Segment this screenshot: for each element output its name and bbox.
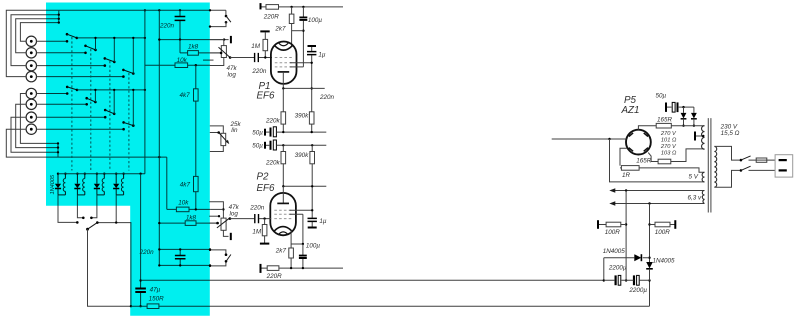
svg-text:15,5 Ω: 15,5 Ω	[721, 130, 740, 137]
svg-text:1R: 1R	[622, 172, 631, 179]
dashed linkage column 2	[90, 49, 92, 171]
wire: P2 g2 to 1u node	[290, 209, 313, 211]
capacitor 100u (P2 screen)	[302, 244, 304, 268]
transformer T1 secondary HV winding	[702, 126, 705, 150]
svg-text:log: log	[228, 72, 237, 79]
wire: jack J7 ground loop	[11, 117, 58, 152]
wire: heater/relay line y=280.5	[141, 279, 604, 281]
wire: P1 g3 to 100u	[290, 66, 303, 68]
resistor 165R (upper)	[638, 126, 704, 130]
resistor 390k (P2)	[310, 152, 315, 164]
svg-text:220k: 220k	[265, 117, 281, 124]
svg-text:100µ: 100µ	[308, 17, 323, 24]
resistor 2k7 (P2 anode)	[290, 231, 292, 269]
rectifier tube P5 AZ1	[626, 130, 651, 155]
wire: B+ vertical to 5V winding	[610, 139, 705, 182]
diode 1N4005 (horizontal)	[604, 258, 650, 281]
wire: ground vertical x=159.3	[158, 10, 160, 265]
svg-text:EF6: EF6	[257, 91, 276, 102]
capacitor 47u (relay supply)	[135, 289, 146, 293]
transformer T1 secondary 5V winding	[702, 172, 704, 182]
transformer T1 primary winding	[714, 146, 716, 187]
ground terminal bar (100R left)	[597, 220, 599, 229]
capacitor 220n (P1 input coupling)	[230, 57, 272, 59]
capacitor 2200u (first)	[614, 275, 616, 285]
wire: jack J2 ground loop	[16, 19, 59, 53]
wire: ground bus vertical group 1	[58, 10, 60, 22]
resistor 1k8 (P2)	[159, 222, 219, 224]
ground terminal bar (100R right)	[674, 220, 676, 229]
switch S1b	[84, 38, 97, 54]
switch S2a	[66, 86, 78, 95]
mains switch pole 1	[740, 159, 743, 162]
wire: P2 cathode line y=186.3	[283, 185, 326, 187]
wire: ground line y=39.6 to bar	[159, 39, 228, 41]
wire: jack signal rows group 2	[37, 94, 124, 130]
capacitor 220n (P2 input coupling)	[230, 218, 271, 220]
capacitor 1u (P1)	[311, 47, 313, 112]
wire: relay contact drop 4	[97, 195, 131, 306]
wire: primary bottom lead	[714, 170, 739, 187]
ground terminal bar (pot P2 bottom)	[230, 233, 232, 240]
diode 1N4005 (vertical on V2)	[646, 262, 653, 269]
resistor 220k (P2)	[281, 152, 286, 164]
capacitor 220n (input filter P1)	[179, 10, 181, 39]
svg-text:5 V: 5 V	[689, 174, 699, 181]
svg-text:2k7: 2k7	[275, 248, 287, 255]
ground terminal bar (50u PSU)	[665, 103, 667, 112]
svg-text:AZ1: AZ1	[621, 105, 640, 116]
wire: relay contact drop 2	[77, 195, 83, 218]
potentiometer 47k log (P2 volume)	[209, 202, 223, 218]
RCA jack J7	[26, 112, 36, 122]
svg-text:220n: 220n	[319, 94, 335, 101]
svg-text:1µ: 1µ	[319, 218, 327, 225]
resistor 165R (lower)	[648, 149, 704, 162]
svg-text:220R: 220R	[263, 13, 280, 20]
RCA jack J8	[26, 124, 36, 134]
svg-text:100R: 100R	[655, 229, 671, 236]
switch S2c	[104, 90, 116, 119]
resistor 1M (P2 grid)	[264, 219, 266, 243]
P2 grid g2 (dashed)	[274, 209, 292, 211]
P2 filament dome	[278, 232, 288, 235]
wire: ground bus to selector, y=157	[58, 157, 167, 209]
wire: jack J8 ground loop	[6, 129, 58, 157]
wire: selector bus 1	[77, 37, 145, 39]
ground terminal bar (centre tap)	[694, 132, 696, 141]
switch S2d	[122, 90, 134, 131]
ground terminal bar (P1 rail)	[260, 3, 262, 9]
svg-text:log: log	[230, 210, 239, 217]
RCA jack J3	[26, 60, 36, 70]
capacitor 100u (P1 screen)	[302, 7, 304, 67]
switch S1a	[66, 33, 78, 43]
svg-text:1µ: 1µ	[318, 52, 326, 59]
selector switch arm	[88, 223, 98, 230]
svg-text:100R: 100R	[605, 229, 621, 236]
wire: collector vertical x=144.9	[144, 10, 146, 173]
wire: jack J4 ground loop	[6, 10, 59, 76]
ground bar (1M P1)	[260, 30, 269, 32]
RCA jack J6	[26, 99, 36, 109]
svg-text:6,3 v: 6,3 v	[688, 195, 703, 202]
mute switch S3 (P1)	[225, 15, 228, 18]
svg-text:1N4005: 1N4005	[653, 258, 676, 265]
resistor 1M (P1 grid)	[264, 32, 266, 57]
svg-text:100µ: 100µ	[306, 242, 321, 249]
ground bar (1u P1)	[308, 45, 317, 47]
svg-text:390k: 390k	[295, 113, 310, 120]
svg-text:165R: 165R	[657, 116, 673, 123]
svg-text:270 V: 270 V	[660, 144, 677, 150]
wire: P2 g3 to 100u	[290, 214, 303, 244]
wire: stub y=60.1	[203, 59, 214, 61]
diode Db (PSU snubber)	[693, 107, 695, 113]
dashed linkage column 4	[128, 73, 130, 171]
svg-text:2k7: 2k7	[274, 25, 286, 32]
svg-text:lin: lin	[231, 127, 238, 134]
wire: jack J1 ground loop	[20, 23, 58, 42]
resistor 220R (P1 rail)	[262, 6, 344, 8]
P1 cathode	[278, 71, 290, 73]
fuse F1	[749, 159, 776, 161]
resistor 1k8 (P1)	[180, 40, 221, 53]
svg-text:50µ: 50µ	[252, 129, 263, 136]
ground terminal bar (50u P2)	[264, 142, 266, 149]
P1 filament cup	[278, 43, 288, 46]
P1 grid g3 (dashed)	[275, 66, 293, 68]
capacitor 50u (P2)	[266, 144, 269, 146]
wire: relay supply bus y=173.7	[58, 173, 145, 175]
resistor 10k (P2)	[167, 208, 210, 210]
ground bar (1M P2)	[260, 243, 269, 245]
resistor 4k7 (P2)	[194, 176, 199, 191]
switch S1c	[104, 38, 116, 67]
wire: jack J5 ground loop	[20, 94, 58, 144]
wire: 6.3V bottom line with arrow	[615, 203, 705, 205]
wire: relay feed vertical x=140.6	[140, 174, 142, 307]
svg-text:165R: 165R	[636, 157, 652, 164]
capacitor 1u (P2)	[311, 218, 313, 227]
dashed linkage column 1	[71, 37, 73, 171]
mute switch S4 (P2)	[210, 250, 226, 254]
P2 anode arc	[274, 227, 291, 231]
svg-text:50µ: 50µ	[252, 143, 263, 150]
dashed linkage column 3	[109, 61, 111, 171]
resistor 220k (P1)	[281, 112, 286, 124]
resistor 220R (P2 rail)	[262, 267, 344, 269]
resistor 100R (right)	[650, 224, 675, 226]
svg-text:220R: 220R	[266, 273, 283, 280]
wire: jack signal rows group 1	[37, 41, 124, 76]
wire: heater feed vertical V2	[649, 204, 651, 307]
wire: HV centre tap	[696, 135, 705, 137]
P2 cathode	[282, 186, 284, 203]
potentiometer 25k lin (balance)	[210, 126, 224, 133]
wire: anode/screen link y=30.7	[292, 30, 304, 32]
RCA jack J4	[26, 71, 36, 81]
transformer T1 secondary 6.3V winding	[702, 191, 704, 204]
wire: B+ output line	[552, 138, 627, 140]
RCA jack J5	[26, 88, 36, 98]
svg-text:1M: 1M	[252, 228, 262, 235]
capacitor 50u (PSU)	[667, 106, 672, 108]
svg-text:EF6: EF6	[257, 183, 276, 194]
P2 grid g3 (dashed)	[274, 213, 292, 215]
wire: P1 cathode line y=88.4	[283, 87, 324, 89]
svg-text:390k: 390k	[295, 152, 310, 159]
switch S2b	[85, 90, 96, 106]
mains switch pole 2	[740, 169, 743, 172]
diode Da (PSU snubber)	[683, 107, 685, 113]
wire: top ground bus y=10.3	[59, 10, 226, 15]
capacitor 50u (P1)	[266, 131, 269, 133]
wire: jack J3 ground loop	[11, 15, 59, 66]
wire: P1 g2 to 1u node	[290, 62, 312, 64]
resistor 4k7 (P1)	[195, 65, 197, 176]
vacuum tube P2 EF6 envelope	[270, 193, 296, 235]
P2 grid g1 (dashed)	[274, 218, 292, 220]
wire: selector common down and right	[88, 229, 131, 306]
ground terminal bar (50u P1)	[264, 129, 266, 136]
resistor 100R (left)	[599, 224, 626, 226]
svg-text:50µ: 50µ	[656, 93, 667, 100]
mains plug	[775, 155, 793, 177]
resistor 10k (P1)	[145, 64, 210, 66]
ground terminal bar (pot P1 top)	[230, 36, 232, 43]
relay RE3 with flyback diode	[94, 173, 106, 195]
wire: jack J6 ground loop	[16, 104, 58, 147]
cyan highlighted input-selector region (multiply overlay)	[46, 3, 210, 316]
svg-text:220k: 220k	[265, 159, 281, 166]
wire: heater line A segments at caps	[604, 279, 650, 281]
switch S1d	[122, 38, 135, 78]
svg-text:2200µ: 2200µ	[628, 287, 647, 294]
wire: heater feed vertical V1	[625, 191, 627, 281]
P1 grid g1 (dashed)	[275, 57, 293, 59]
ground terminal bar (P2 rail)	[260, 264, 262, 273]
RCA jack J1	[26, 36, 36, 46]
capacitor 220n (input filter P2)	[159, 249, 210, 265]
relay RE1 with flyback diode	[55, 173, 67, 195]
wire: mute switch S3 return	[210, 22, 226, 26]
resistor 1R (filament)	[620, 148, 705, 172]
P1 anode arc	[275, 46, 292, 50]
potentiometer 47k log (P1 volume)	[210, 40, 224, 46]
selector switch contacts	[76, 221, 79, 224]
svg-text:103 Ω: 103 Ω	[661, 150, 677, 156]
svg-text:1N4005: 1N4005	[603, 248, 626, 255]
RCA jack J2	[26, 48, 36, 58]
wire: primary top lead	[714, 146, 739, 160]
svg-text:101 Ω: 101 Ω	[661, 137, 677, 143]
svg-text:1M: 1M	[251, 43, 261, 50]
resistor 2k7 (P1 anode)	[291, 7, 293, 47]
svg-text:270 V: 270 V	[660, 131, 677, 137]
vacuum tube P1 EF6 envelope	[271, 42, 297, 84]
resistor 390k (P1)	[309, 112, 314, 124]
P1 grid g2 (dashed)	[275, 62, 293, 64]
svg-text:220n: 220n	[249, 205, 265, 212]
transformer T1 core	[708, 118, 711, 212]
svg-text:220n: 220n	[251, 68, 267, 75]
capacitor 2200u (second)	[633, 275, 635, 285]
wire: anode/screen link y=244 (P2)	[291, 243, 303, 245]
resistor 150R (relay supply)	[131, 305, 650, 307]
wire: relay contact drop 1	[58, 195, 77, 223]
svg-text:2200µ: 2200µ	[608, 264, 627, 271]
wire: pole2 to plug	[749, 169, 776, 171]
wire: selector bus 2	[77, 89, 145, 91]
svg-text:P2: P2	[257, 172, 270, 183]
relay RE2 with flyback diode	[74, 173, 86, 195]
wire: ground bus vertical group 2	[57, 143, 59, 157]
wire: relay contact drop 3	[91, 195, 97, 218]
wire: 6.3V top line with arrow	[615, 190, 705, 192]
ground bar (1u P2)	[308, 227, 317, 229]
relay RE4 with flyback diode	[113, 173, 125, 195]
